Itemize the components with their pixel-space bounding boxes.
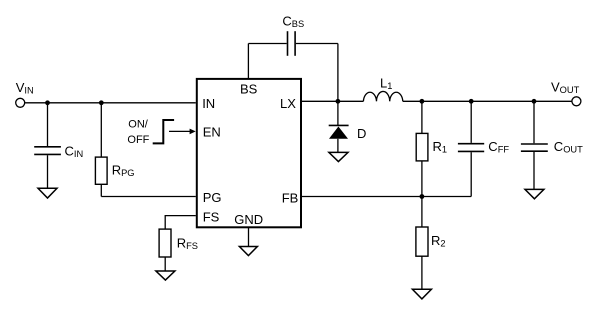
wire LX to VOUT rail [403, 100, 572, 102]
junction RPG tap [99, 100, 104, 105]
svg-text:VIN: VIN [16, 80, 34, 95]
svg-text:R1: R1 [433, 139, 448, 155]
svg-text:COUT: COUT [554, 139, 583, 155]
svg-text:CBS: CBS [282, 14, 304, 30]
svg-text:VOUT: VOUT [551, 80, 580, 95]
svg-text:CIN: CIN [65, 143, 84, 159]
svg-text:EN: EN [203, 125, 221, 140]
svg-text:L1: L1 [380, 76, 392, 92]
svg-text:CFF: CFF [488, 139, 509, 155]
ground (COUT) [525, 189, 544, 198]
svg-text:PG: PG [203, 190, 222, 205]
junction CIN tap [45, 100, 50, 105]
svg-text:RFS: RFS [177, 236, 198, 252]
wire CBS to LX node [337, 44, 339, 102]
wire LX rail [301, 100, 363, 102]
svg-text:GND: GND [234, 212, 263, 227]
svg-text:RPG: RPG [112, 163, 135, 179]
junction diode node [336, 99, 341, 104]
ground (diode) [329, 152, 348, 161]
svg-text:BS: BS [240, 82, 258, 97]
wire PG net [101, 196, 196, 198]
ground (CIN) [38, 188, 57, 198]
wire FB net [301, 196, 471, 198]
capacitor CFF [458, 101, 509, 196]
wire FS net [165, 216, 196, 230]
ground (GND pin) [239, 247, 257, 256]
wire VIN rail [25, 102, 196, 104]
wire GND pin [248, 227, 250, 246]
ground (RFS) [156, 271, 175, 280]
arrow into EN pin [169, 129, 196, 135]
step waveform symbol [153, 120, 174, 143]
wire BS pin [247, 44, 249, 79]
svg-text:OFF: OFF [127, 134, 149, 146]
svg-text:D: D [357, 126, 366, 141]
inductor L1 [363, 76, 402, 102]
diode D [329, 101, 367, 152]
junction R1 node [420, 99, 425, 104]
svg-text:ON/: ON/ [128, 119, 149, 131]
terminal VIN [16, 80, 34, 107]
junction CFF node [469, 99, 474, 104]
svg-text:FS: FS [203, 209, 220, 224]
capacitor COUT [521, 101, 583, 189]
resistor RPG [95, 103, 134, 197]
svg-text:R2: R2 [431, 233, 446, 249]
svg-text:FB: FB [282, 190, 299, 205]
ON/OFF control label [127, 119, 149, 147]
capacitor CIN [34, 103, 83, 189]
junction FB/R2 node [420, 194, 425, 199]
resistor RFS [159, 229, 198, 271]
IC U1 body [197, 79, 301, 227]
junction COUT node [532, 99, 537, 104]
capacitor CBS [248, 14, 338, 56]
terminal VOUT [551, 80, 581, 106]
resistor R1 [416, 101, 447, 196]
ground (R2) [412, 289, 431, 299]
resistor R2 [416, 197, 446, 290]
svg-text:IN: IN [202, 96, 215, 111]
svg-text:LX: LX [280, 96, 296, 111]
